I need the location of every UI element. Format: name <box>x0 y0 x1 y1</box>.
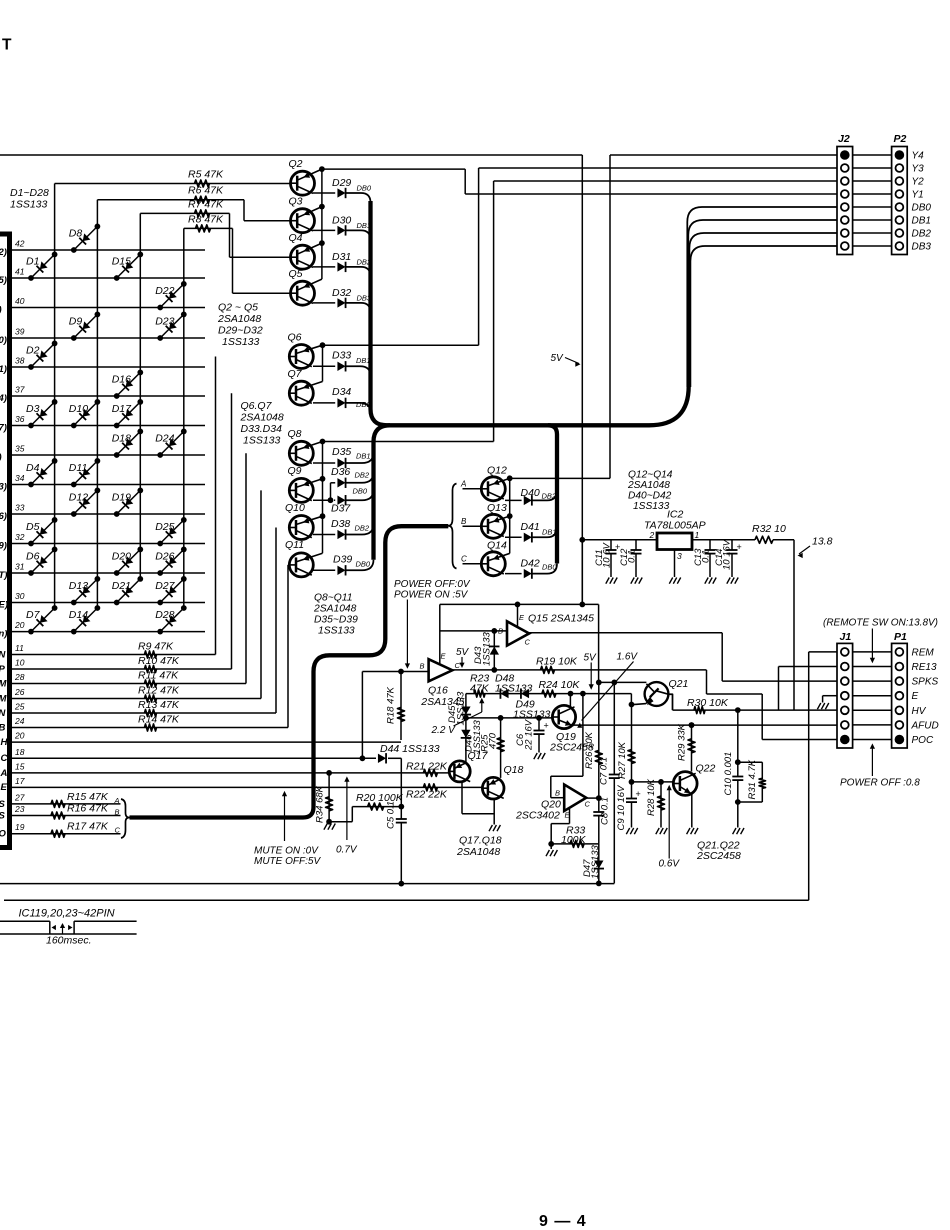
connector J2 <box>837 133 853 255</box>
diode D43 <box>473 631 499 673</box>
resistor R21 <box>406 761 448 777</box>
svg-text:Q18: Q18 <box>504 764 524 776</box>
J2-P2 interconnect pin 4 <box>853 193 892 195</box>
svg-text:D41: D41 <box>521 521 540 533</box>
svg-text:D23: D23 <box>155 316 174 328</box>
svg-text:34: 34 <box>15 473 25 483</box>
svg-text:Q6: Q6 <box>288 332 302 344</box>
resistor R22 <box>406 784 448 801</box>
transistor Q9 <box>288 465 323 502</box>
capacitor C11 <box>594 540 620 584</box>
5V label at Q16 collector <box>456 647 470 668</box>
svg-text:R10 47K: R10 47K <box>138 655 180 667</box>
svg-text:2SA1048: 2SA1048 <box>313 604 357 615</box>
svg-text:10 16V: 10 16V <box>722 538 733 570</box>
label 160msec <box>46 935 92 947</box>
svg-text:D32: D32 <box>332 287 351 299</box>
svg-text:0.1: 0.1 <box>627 550 638 563</box>
svg-text:R22 22K: R22 22K <box>406 789 448 801</box>
svg-text:D17: D17 <box>112 403 132 415</box>
svg-text:Q8: Q8 <box>288 428 302 440</box>
resistor R14 on IC pin 24 row, wire up to Q11 base <box>0 565 288 734</box>
svg-text:D5: D5 <box>26 521 40 533</box>
transistor Q3 <box>289 196 322 233</box>
svg-text:C: C <box>525 638 531 647</box>
Q12-Q14 emitter rail <box>507 475 513 553</box>
POC wire <box>707 670 838 740</box>
svg-text:M: M <box>0 679 8 690</box>
svg-text:Q12~Q14: Q12~Q14 <box>628 470 673 481</box>
svg-text:33: 33 <box>15 503 25 513</box>
connector P1 <box>892 631 908 748</box>
svg-text:S: S <box>0 811 6 822</box>
diode D30 from Q3 collector <box>313 214 371 240</box>
matrix diode D3 <box>26 399 57 428</box>
RE13 wire <box>779 667 838 711</box>
svg-text:P2: P2 <box>894 133 907 145</box>
svg-text:R15 47K: R15 47K <box>67 791 109 803</box>
resistor R26 <box>584 682 602 798</box>
svg-text:D35: D35 <box>332 446 351 458</box>
svg-text:D18: D18 <box>112 433 131 445</box>
svg-text:Q17.Q18: Q17.Q18 <box>459 835 502 847</box>
svg-text:38: 38 <box>15 356 25 366</box>
diode D35 <box>313 446 374 468</box>
svg-text:): ) <box>0 305 2 316</box>
svg-text:10 6V: 10 6V <box>601 542 612 568</box>
IC pin 39 row wire <box>0 327 205 347</box>
resistor R34 <box>315 770 336 830</box>
svg-text:47K: 47K <box>470 683 490 695</box>
J1-P1 interconnect pin 1 <box>853 651 892 653</box>
svg-text:Y4: Y4 <box>912 151 925 162</box>
svg-text:3): 3) <box>0 482 7 493</box>
diode D46 <box>461 718 483 763</box>
svg-text:REM: REM <box>912 647 935 658</box>
label Q8~Q11 2SA1048 D35~D39 1SS133 <box>313 593 358 637</box>
net label DB3 <box>912 242 932 253</box>
svg-text:DB1: DB1 <box>542 528 557 537</box>
net label SPKS <box>912 677 939 688</box>
label D1~D28 1SS133 <box>10 187 49 211</box>
matrix diode D28 <box>155 605 187 634</box>
matrix diode D5 <box>26 517 57 546</box>
diode D29 from Q2 collector <box>313 177 372 203</box>
net label E <box>912 691 919 702</box>
diode D38 <box>313 518 374 540</box>
svg-text:D35~D39: D35~D39 <box>314 615 358 626</box>
net label Y1 <box>912 190 924 201</box>
Q15 collector SPKS line <box>529 633 722 681</box>
svg-text:DB0: DB0 <box>357 184 372 193</box>
svg-text:R12 47K: R12 47K <box>138 685 180 697</box>
svg-text:R30 10K: R30 10K <box>687 697 729 709</box>
svg-text:Q7: Q7 <box>288 368 303 380</box>
matrix diode D7 <box>26 605 57 634</box>
IC pin 41 row wire <box>0 267 205 287</box>
svg-text:30: 30 <box>15 591 25 601</box>
J2-P2 interconnect pin 5 <box>853 206 892 208</box>
transistor Q22 <box>673 763 715 796</box>
IC pin 18 row wire (D44 line) <box>1 747 402 764</box>
svg-text:Q11: Q11 <box>285 539 304 551</box>
svg-text:31: 31 <box>15 562 25 572</box>
wire 5V vertical to IC2 input line <box>579 537 585 605</box>
svg-text:10: 10 <box>15 658 25 668</box>
svg-text:C10 0.001: C10 0.001 <box>723 752 734 796</box>
svg-text:2SC2458: 2SC2458 <box>696 850 741 862</box>
resistor R27 <box>617 704 635 782</box>
svg-text:2): 2) <box>0 247 7 258</box>
svg-text:D36: D36 <box>331 466 350 478</box>
capacitor C6 <box>515 718 549 759</box>
svg-text:D6: D6 <box>26 551 40 563</box>
svg-text:37: 37 <box>15 385 25 395</box>
Q21 collector to R30 <box>668 694 672 710</box>
svg-text:MUTE OFF:5V: MUTE OFF:5V <box>254 856 321 867</box>
brace joining R15-R17 outputs <box>121 799 130 838</box>
key-matrix column line 3 <box>139 213 141 578</box>
IC pin 36 row wire <box>0 414 205 434</box>
C10 R31 parallel pair <box>723 710 766 834</box>
svg-text:1: 1 <box>695 530 700 540</box>
svg-text:R31 4.7K: R31 4.7K <box>747 759 758 799</box>
resistor R17 on IC pin 19 row <box>0 821 121 840</box>
svg-text:1.6V: 1.6V <box>617 652 639 663</box>
svg-text:D42: D42 <box>521 558 540 570</box>
wire Q2 rail to Y1 step <box>322 169 837 194</box>
svg-text:D7: D7 <box>26 609 41 621</box>
svg-text:AFUD: AFUD <box>911 720 939 731</box>
transistor Q12 <box>481 465 509 501</box>
capacitor C9 <box>616 782 641 834</box>
svg-text:R6 47K: R6 47K <box>188 185 224 197</box>
Q16 base line <box>362 672 428 759</box>
svg-text:B: B <box>0 723 6 734</box>
IC2 input line <box>582 539 657 541</box>
svg-text:D28: D28 <box>155 609 174 621</box>
wire row20 D44 junction <box>360 755 366 761</box>
capacitor C12 <box>619 540 642 584</box>
IC pin 33 row wire <box>0 503 205 523</box>
5V label at R24 node <box>584 653 598 690</box>
Q21 base line <box>596 680 647 686</box>
svg-text:D1~D28: D1~D28 <box>10 187 49 199</box>
resistor R25 <box>480 718 505 778</box>
svg-text:Q21: Q21 <box>669 678 689 690</box>
transistor Q20 (driver triangle) <box>515 785 591 822</box>
svg-text:6): 6) <box>0 511 7 522</box>
svg-text:5V: 5V <box>551 353 565 364</box>
net label DB2 <box>912 229 932 240</box>
diode D39 <box>313 554 374 576</box>
matrix diode D27 <box>155 576 187 605</box>
svg-text:R17 47K: R17 47K <box>67 821 109 833</box>
matrix diode D8 <box>69 224 101 253</box>
svg-text:20: 20 <box>14 731 25 741</box>
svg-text:11: 11 <box>15 643 24 653</box>
Y4 wire J2 to Q12 rail <box>510 155 837 478</box>
svg-text:Q3: Q3 <box>289 196 303 208</box>
svg-text:0): 0) <box>0 335 7 346</box>
resistor R32 <box>752 523 794 543</box>
resistor R5 and wire to Q2 base <box>55 169 291 188</box>
label Q21.Q22 2SC2458 <box>696 840 741 863</box>
capacitor C7 <box>599 682 620 883</box>
transistor Q8 <box>288 428 323 465</box>
label 2.2V with pointer <box>431 698 485 736</box>
svg-text:T: T <box>2 37 12 54</box>
resistor R15 on IC pin 27 row <box>0 791 121 810</box>
matrix diode D10 <box>69 399 101 428</box>
svg-text:B: B <box>420 662 425 671</box>
svg-text:S: S <box>0 799 6 810</box>
svg-text:39: 39 <box>15 327 25 337</box>
DB1 wire J2 to bus <box>688 220 837 387</box>
net label Y2 <box>912 177 925 188</box>
resistor R13 on IC pin 25 row, wire up to Q10 base <box>0 528 276 720</box>
svg-text:DB3: DB3 <box>912 242 932 253</box>
label POWER OFF/ON <box>394 579 471 669</box>
svg-text:DB2: DB2 <box>912 229 932 240</box>
transistor Q14 <box>481 540 509 576</box>
svg-text:19: 19 <box>15 822 25 832</box>
J2-P2 interconnect pin 2 <box>853 167 892 169</box>
5V supply line across top <box>0 155 582 540</box>
svg-text:D11: D11 <box>69 462 87 474</box>
svg-text:D38: D38 <box>331 518 350 530</box>
Q21 emitter node wire <box>629 702 635 708</box>
svg-text:A: A <box>460 479 466 488</box>
svg-text:26: 26 <box>14 687 25 697</box>
capacitor C5 <box>386 801 407 886</box>
transistor Q2 <box>289 158 322 195</box>
svg-text:E): E) <box>0 600 8 611</box>
IC pin 15 row wire (Q17 base line) <box>0 761 449 779</box>
matrix diode D21 <box>112 576 144 605</box>
svg-text:15: 15 <box>15 761 25 771</box>
key-matrix column line 4 <box>183 228 185 607</box>
svg-text:22 16V: 22 16V <box>524 718 535 751</box>
svg-text:100K: 100K <box>561 834 587 846</box>
transistor Q6 <box>288 332 323 369</box>
svg-text:C8 0.1: C8 0.1 <box>600 797 611 825</box>
matrix diode D23 <box>155 312 187 341</box>
label Q12~Q14 2SA1048 D40~D42 1SS133 <box>627 470 673 513</box>
IC pin 35 row wire <box>0 444 205 464</box>
svg-text:42: 42 <box>15 239 25 249</box>
svg-text:C9 10 16V: C9 10 16V <box>616 784 627 831</box>
Q15 base line <box>440 628 507 634</box>
svg-text:D1: D1 <box>26 256 39 268</box>
svg-text:Q22: Q22 <box>696 763 716 775</box>
IC2 output line <box>692 539 755 541</box>
svg-text:D9: D9 <box>69 316 83 328</box>
svg-text:1SS133: 1SS133 <box>513 709 551 721</box>
diode D45 <box>447 691 471 726</box>
wire D44 to R20 node <box>400 758 402 806</box>
svg-text:A: A <box>0 768 8 779</box>
J1-P1 interconnect pin 5 <box>853 709 892 711</box>
IC pin 34 row wire <box>0 473 205 493</box>
svg-text:Y1: Y1 <box>912 190 924 201</box>
IC pin 42 row wire <box>0 239 205 259</box>
J1-P1 interconnect pin 6 <box>853 724 892 726</box>
svg-text:DB0: DB0 <box>912 203 932 214</box>
svg-text:32: 32 <box>15 532 25 542</box>
title letter T <box>2 37 12 54</box>
svg-text:2: 2 <box>649 530 655 540</box>
IC pin 17 row wire (Q18 base line) <box>1 776 483 793</box>
svg-text:Q4: Q4 <box>289 232 303 244</box>
MUTE rail <box>0 881 614 887</box>
svg-text:1SS133: 1SS133 <box>633 501 670 512</box>
matrix diode D9 <box>69 312 101 341</box>
svg-text:D22: D22 <box>155 285 174 297</box>
thick A/B/C select wire from R15-R17 to Q12-Q14 bases <box>130 526 449 817</box>
svg-text:C: C <box>461 555 467 564</box>
DB2 wire J2 to bus <box>689 233 837 387</box>
IC pin 20 row wire <box>0 620 205 640</box>
label Q6.Q7 2SA1048 D33.D34 1SS133 <box>240 400 284 447</box>
svg-text:O: O <box>0 829 7 840</box>
label Q17.Q18 2SA1048 <box>456 835 502 859</box>
net label Y4 <box>912 151 925 162</box>
svg-text:R21 22K: R21 22K <box>406 761 448 773</box>
svg-text:): ) <box>0 452 2 463</box>
matrix diode D26 <box>155 547 187 576</box>
resistor R33 <box>551 825 599 848</box>
J1-P1 interconnect pin 7 <box>853 739 892 741</box>
svg-text:Q5: Q5 <box>289 268 303 280</box>
svg-text:n): n) <box>0 629 7 640</box>
svg-text:Q12: Q12 <box>487 465 507 477</box>
svg-text:1SS133: 1SS133 <box>482 631 493 666</box>
net label REM <box>912 647 935 658</box>
Q15 emitter rail <box>440 540 599 628</box>
svg-text:D29: D29 <box>332 177 351 189</box>
transistor Q5 <box>289 268 322 305</box>
AFUD line from Q19 emitter <box>574 722 838 728</box>
svg-text:C: C <box>115 826 121 835</box>
transistor Q13 <box>481 502 509 538</box>
svg-text:SPKS: SPKS <box>912 677 939 688</box>
resistor R9 on IC pin 11 row, wire up to Q6 base <box>0 357 216 661</box>
connector P2 <box>892 133 908 255</box>
net label DB0 <box>912 203 932 214</box>
svg-text:D21: D21 <box>112 580 131 592</box>
capacitor C14 <box>714 538 742 583</box>
resistor R10 on IC pin 10 row, wire up to Q7 base <box>0 393 232 675</box>
IC pin 20 row wire (to R18 bottom) <box>1 731 402 748</box>
Q6-Q7 emitter rail and Y3 wire <box>320 168 837 382</box>
diode D44 <box>378 743 440 763</box>
connector J1 <box>837 631 853 748</box>
svg-text:P: P <box>0 664 6 675</box>
svg-text:E: E <box>1 782 8 793</box>
IC pin 31 row wire <box>0 562 205 582</box>
svg-text:Q17: Q17 <box>468 750 489 762</box>
svg-text:2SA1048: 2SA1048 <box>627 480 670 491</box>
svg-text:9): 9) <box>0 541 7 552</box>
svg-text:C7 0.1: C7 0.1 <box>599 757 610 785</box>
transistor Q17 <box>449 750 488 782</box>
svg-text:D19: D19 <box>112 492 131 504</box>
svg-text:D15: D15 <box>112 256 131 268</box>
resistor R28 <box>646 778 667 834</box>
svg-text:7): 7) <box>0 423 7 434</box>
svg-text:+: + <box>636 789 641 799</box>
transistor Q21 <box>634 678 688 706</box>
svg-text:0.6V: 0.6V <box>659 859 681 870</box>
Q22 emitter to ground <box>687 794 698 834</box>
matrix diode D25 <box>155 517 187 546</box>
matrix diode D16 <box>112 370 144 399</box>
svg-text:2SC3402: 2SC3402 <box>515 810 560 822</box>
J2-P2 interconnect pin 6 <box>853 219 892 221</box>
svg-text:2SA1048: 2SA1048 <box>240 412 284 424</box>
net label AFUD <box>911 720 939 731</box>
matrix diode D2 <box>26 341 57 370</box>
svg-text:C5 0.1: C5 0.1 <box>386 801 397 829</box>
page number 9-4 <box>539 1213 587 1230</box>
J2-P2 interconnect pin 3 <box>853 180 892 182</box>
SPKS wire <box>722 680 837 682</box>
svg-text:POWER ON :5V: POWER ON :5V <box>394 590 469 601</box>
svg-text:5): 5) <box>0 275 7 286</box>
diode D42 <box>505 558 557 579</box>
svg-text:D29~D32: D29~D32 <box>218 325 263 337</box>
svg-text:R9 47K: R9 47K <box>138 641 174 653</box>
svg-text:DB1: DB1 <box>912 216 931 227</box>
resistor R6 and jog wire to Q3 base <box>97 185 290 221</box>
matrix diode D11 <box>69 458 101 487</box>
J2-P2 interconnect pin 1 <box>853 154 892 156</box>
svg-text:13.8: 13.8 <box>812 536 833 548</box>
diode D36 <box>331 466 374 488</box>
transistor Q18 <box>482 764 523 799</box>
svg-text:R14 47K: R14 47K <box>138 714 180 726</box>
svg-text:35: 35 <box>15 444 25 454</box>
svg-text:M: M <box>0 694 8 705</box>
svg-text:D31: D31 <box>332 251 351 263</box>
svg-text:D10: D10 <box>69 403 88 415</box>
svg-text:R19 10K: R19 10K <box>536 656 578 668</box>
IC1 microcontroller body (page-edge block) <box>0 233 12 849</box>
IC pin 30 row wire <box>0 591 205 611</box>
svg-text:DB0: DB0 <box>356 560 371 569</box>
node dots on R24 line <box>568 691 586 697</box>
J1-P1 interconnect pin 4 <box>853 695 892 697</box>
svg-text:36: 36 <box>15 414 25 424</box>
svg-text:Q16: Q16 <box>428 685 448 697</box>
resistor R24 <box>539 679 581 697</box>
svg-text:RE13: RE13 <box>912 662 937 673</box>
svg-text:D2: D2 <box>26 345 40 357</box>
diode D37 <box>331 487 374 515</box>
svg-text:2SA1048: 2SA1048 <box>217 313 261 325</box>
svg-text:DB1: DB1 <box>356 452 371 461</box>
label POWER OFF 0.8 <box>840 743 920 788</box>
base wire A <box>460 479 481 489</box>
R30 HV line <box>673 697 838 714</box>
net label HV <box>912 706 927 717</box>
label IC119,20,23~42PIN <box>19 908 115 920</box>
svg-text:D33: D33 <box>332 350 351 362</box>
matrix diode D17 <box>112 399 144 428</box>
label 13.8 with pointer <box>798 536 833 559</box>
diode D48 <box>495 673 533 699</box>
